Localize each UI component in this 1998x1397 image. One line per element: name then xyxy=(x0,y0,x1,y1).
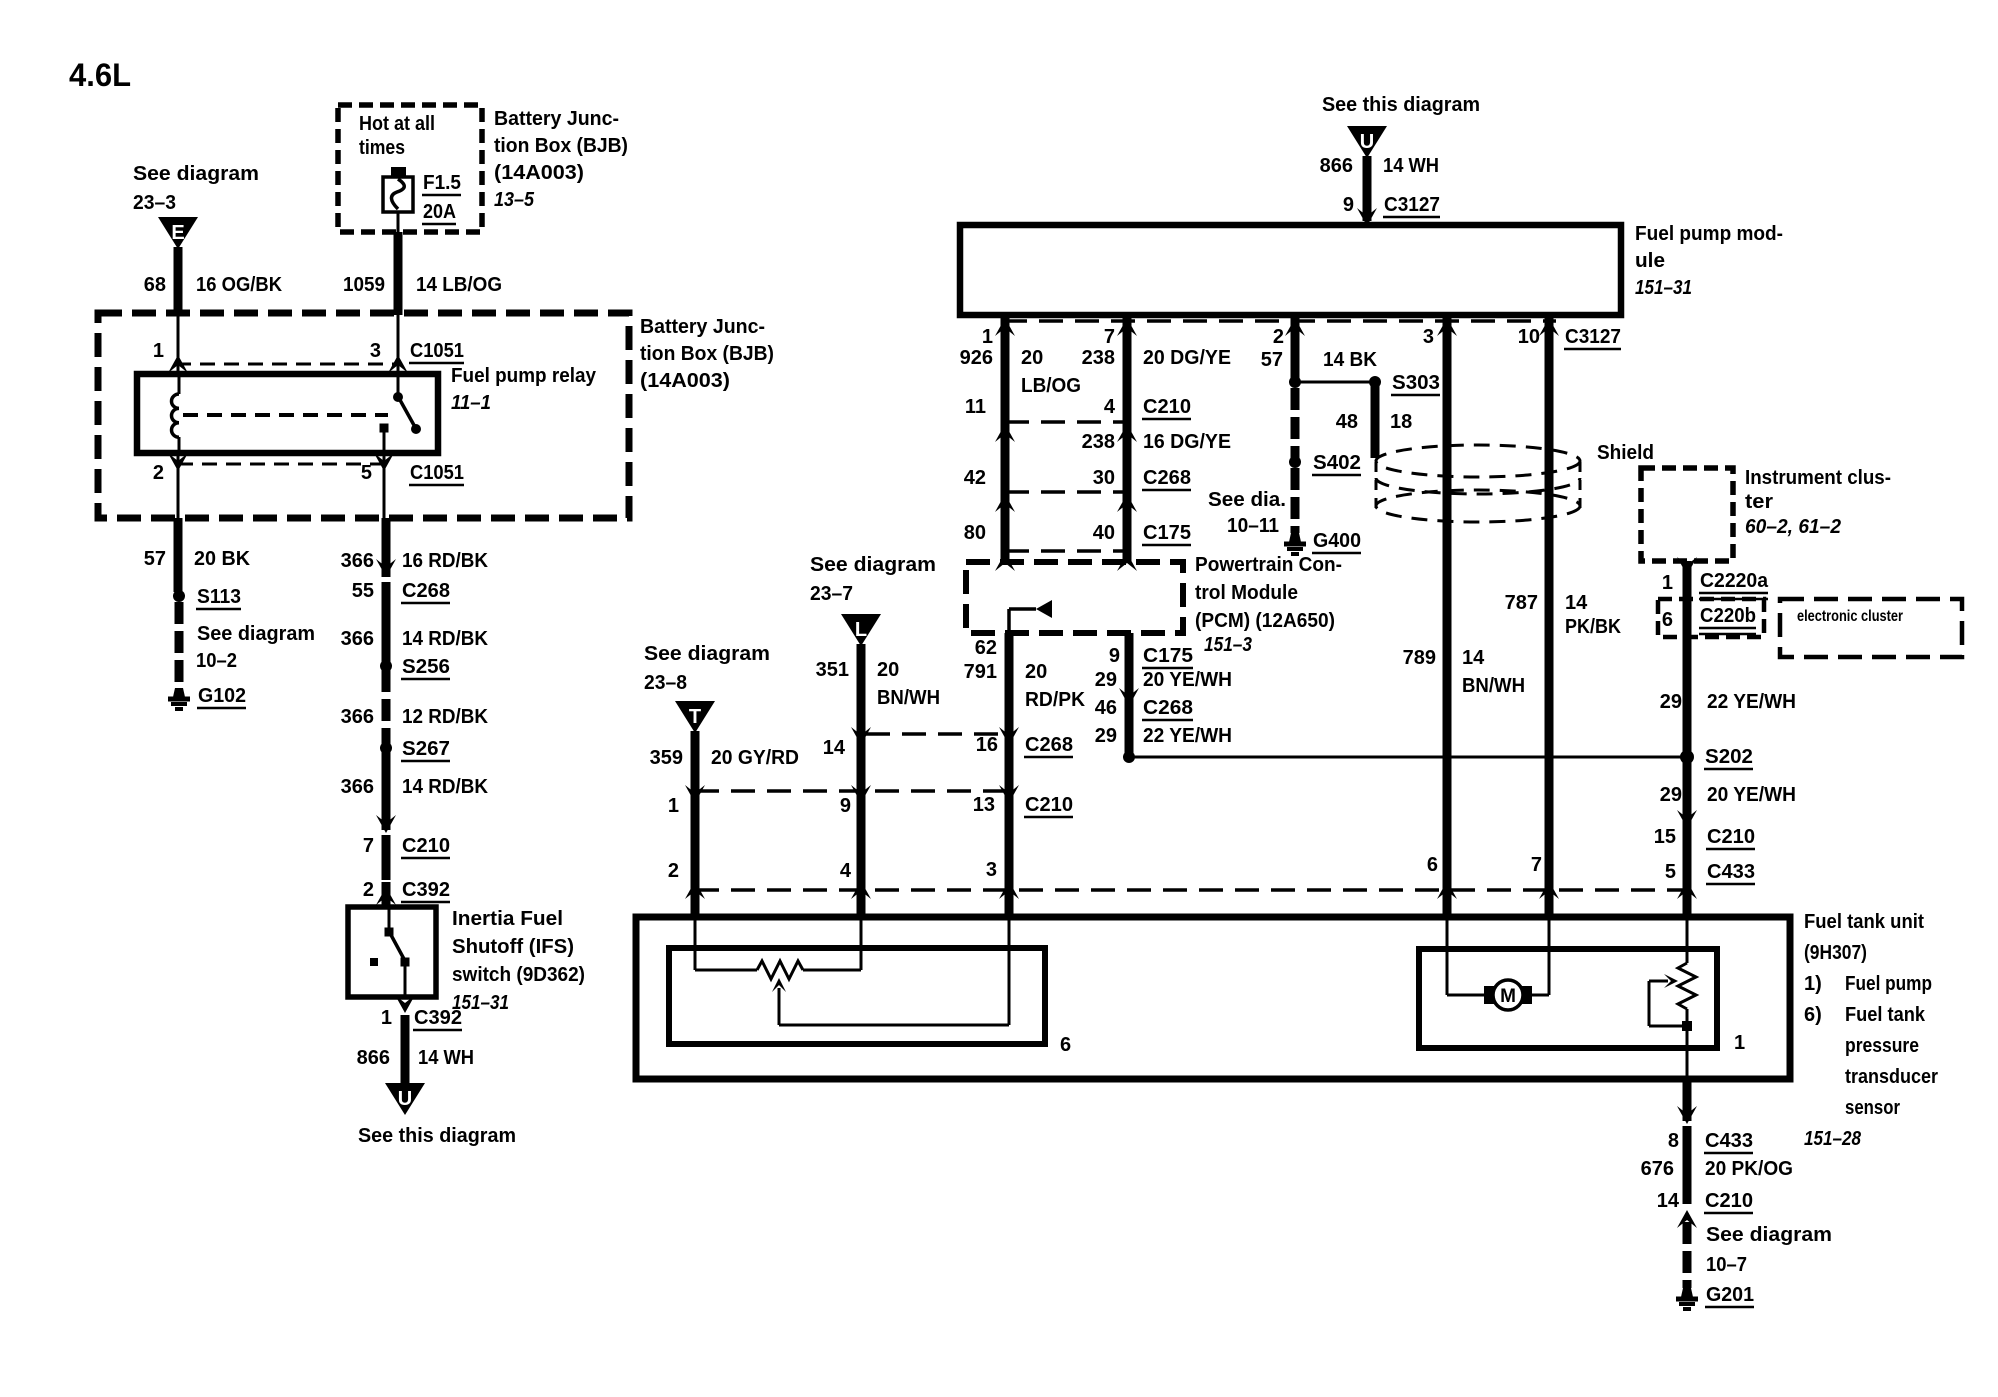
svg-text:20 BK: 20 BK xyxy=(194,548,251,570)
label 351 20 BN/WH xyxy=(816,659,940,709)
arrow out relay pin 5 xyxy=(374,453,394,471)
svg-text:10: 10 xyxy=(1518,326,1540,348)
connector C220b box xyxy=(1658,599,1764,637)
svg-text:866: 866 xyxy=(357,1047,390,1069)
wire BJB top to relay pin 3 xyxy=(397,315,400,374)
svg-text:366: 366 xyxy=(341,628,374,650)
label 7 C210 xyxy=(363,835,450,858)
label 29 20 YE/WH xyxy=(1095,669,1232,691)
svg-text:S113: S113 xyxy=(197,586,241,608)
arrow into IFS switch xyxy=(376,882,396,907)
title 4.6L xyxy=(69,57,131,93)
svg-text:13: 13 xyxy=(973,794,995,816)
sender wires and resistor xyxy=(695,917,861,979)
svg-text:F1.5: F1.5 xyxy=(423,172,461,194)
label 15 C210 right xyxy=(1654,826,1755,849)
label 14 C210 xyxy=(1657,1190,1753,1213)
wire tank to C433 pin 8 xyxy=(1683,1079,1692,1121)
svg-text:See this diagram: See this diagram xyxy=(358,1125,516,1147)
label 29 20 YE/WH right xyxy=(1660,784,1796,806)
label 68 16 OG/BK xyxy=(144,274,283,296)
svg-text:16 OG/BK: 16 OG/BK xyxy=(196,274,283,296)
svg-text:L: L xyxy=(855,619,867,641)
svg-text:ule: ule xyxy=(1635,250,1665,272)
svg-text:See this diagram: See this diagram xyxy=(1322,94,1480,116)
svg-text:See diagram: See diagram xyxy=(133,163,259,185)
fuel level sender box xyxy=(669,948,1045,1044)
wire 366 14 RD/BK lower xyxy=(382,752,391,830)
svg-text:7: 7 xyxy=(1531,854,1542,876)
svg-text:switch (9D362): switch (9D362) xyxy=(452,964,585,986)
labels 42 30 C268 xyxy=(964,467,1191,490)
svg-text:7: 7 xyxy=(363,835,374,857)
labels 16 C268 mid xyxy=(976,734,1073,757)
svg-text:6: 6 xyxy=(1427,854,1438,876)
label See diagram 10-2 xyxy=(196,623,315,672)
arrow into C433 pin 8 xyxy=(1677,1106,1697,1124)
ground G102 xyxy=(168,685,246,709)
wire 866 14 WH top xyxy=(1363,156,1372,221)
label Battery Junction Box (BJB) (14A003) xyxy=(640,316,774,392)
svg-text:4: 4 xyxy=(1104,396,1116,418)
label 29 22 YE/WH xyxy=(1095,725,1232,747)
label 57 20 BK xyxy=(144,548,251,570)
svg-text:BN/WH: BN/WH xyxy=(1462,675,1525,697)
labels 11 4 C210 xyxy=(965,396,1191,419)
svg-text:Shutoff (IFS): Shutoff (IFS) xyxy=(452,936,574,958)
svg-text:C1051: C1051 xyxy=(410,340,464,362)
junction dot PCM sense wire xyxy=(1123,751,1135,763)
wire S402 to G400 dashed xyxy=(1291,468,1300,533)
connector line C210 in harness xyxy=(995,422,1137,442)
svg-text:57: 57 xyxy=(1261,349,1283,371)
wire 366 16 RD/BK xyxy=(382,518,391,577)
svg-text:(9H307): (9H307) xyxy=(1804,942,1867,964)
svg-text:366: 366 xyxy=(341,706,374,728)
label 366 12 RD/BK xyxy=(341,706,489,728)
wire 1059 14 LB/OG xyxy=(394,232,403,315)
svg-text:trol Module: trol Module xyxy=(1195,582,1298,604)
labels 80 40 C175 xyxy=(964,522,1191,545)
svg-text:46: 46 xyxy=(1095,697,1117,719)
svg-text:2: 2 xyxy=(153,462,164,484)
svg-text:926: 926 xyxy=(960,347,993,369)
label 1 pump xyxy=(1734,1032,1745,1054)
svg-text:C3127: C3127 xyxy=(1565,326,1621,348)
relay switch xyxy=(380,374,422,453)
PCM driver symbol xyxy=(1009,600,1052,633)
label 1 pin xyxy=(668,795,679,817)
svg-text:U: U xyxy=(1360,131,1374,153)
svg-text:transducer: transducer xyxy=(1845,1066,1938,1088)
svg-text:C268: C268 xyxy=(1025,734,1073,756)
label Inertia Fuel Shutoff (IFS) switch (9D362) 151-31 xyxy=(452,908,585,1014)
svg-text:20: 20 xyxy=(1021,347,1043,369)
svg-text:366: 366 xyxy=(341,776,374,798)
fuel pump motor box xyxy=(1419,949,1717,1048)
svg-text:151–28: 151–28 xyxy=(1804,1128,1862,1150)
label See diagram 10-7 xyxy=(1706,1224,1832,1276)
svg-text:238: 238 xyxy=(1082,431,1115,453)
module pin arrows xyxy=(995,318,1559,336)
splice S303 xyxy=(1289,372,1440,395)
svg-text:C210: C210 xyxy=(1705,1190,1753,1212)
svg-text:C392: C392 xyxy=(402,879,450,901)
splice S256 xyxy=(380,656,450,679)
svg-text:LB/OG: LB/OG xyxy=(1021,375,1081,397)
label 791 20 RD/PK xyxy=(964,661,1086,711)
connector line C210 mid xyxy=(685,785,1019,803)
svg-text:18: 18 xyxy=(1390,411,1412,433)
svg-text:351: 351 xyxy=(816,659,849,681)
powertrain control module PCM box xyxy=(966,562,1183,633)
svg-text:60–2, 61–2: 60–2, 61–2 xyxy=(1745,516,1841,538)
off-page connector L xyxy=(841,614,881,646)
off-page connector T xyxy=(675,701,715,733)
svg-text:20 GY/RD: 20 GY/RD xyxy=(711,747,799,769)
arrow into C268 pin 55 xyxy=(376,559,396,577)
svg-text:6): 6) xyxy=(1804,1004,1822,1026)
svg-text:29: 29 xyxy=(1660,784,1682,806)
fuel pump relay box xyxy=(137,374,438,453)
svg-text:14 RD/BK: 14 RD/BK xyxy=(402,776,489,798)
label 5 C433 right xyxy=(1665,861,1755,884)
splice S402 xyxy=(1289,452,1361,475)
fuel tank unit box xyxy=(636,917,1790,1079)
svg-text:20 YE/WH: 20 YE/WH xyxy=(1707,784,1796,806)
svg-text:29: 29 xyxy=(1095,669,1117,691)
off-page connector U top xyxy=(1347,126,1387,158)
label See diagram 23-8 xyxy=(644,643,770,694)
svg-text:23–3: 23–3 xyxy=(133,192,176,214)
wire below S256 xyxy=(382,670,391,744)
svg-text:pressure: pressure xyxy=(1845,1035,1919,1057)
label 2 C392 xyxy=(363,879,450,902)
svg-text:14 WH: 14 WH xyxy=(418,1047,474,1069)
svg-text:151–3: 151–3 xyxy=(1204,634,1252,656)
svg-text:1059: 1059 xyxy=(343,274,385,296)
label 238 20 DG/YE xyxy=(1082,347,1231,369)
label Shield xyxy=(1597,442,1654,464)
fuse F1.5 20A xyxy=(383,167,413,232)
svg-text:Shield: Shield xyxy=(1597,442,1654,464)
svg-text:times: times xyxy=(359,137,405,159)
splice S113 xyxy=(173,586,241,609)
shield xyxy=(1376,445,1580,522)
label 1 C2220a xyxy=(1662,570,1769,599)
svg-text:2: 2 xyxy=(1273,326,1284,348)
svg-text:S402: S402 xyxy=(1313,452,1361,474)
svg-text:80: 80 xyxy=(964,522,986,544)
svg-text:16 RD/BK: 16 RD/BK xyxy=(402,550,489,572)
svg-text:15: 15 xyxy=(1654,826,1676,848)
svg-text:10–7: 10–7 xyxy=(1706,1254,1747,1276)
relay connector line top xyxy=(176,363,400,366)
svg-text:RD/PK: RD/PK xyxy=(1025,689,1086,711)
svg-text:13–5: 13–5 xyxy=(494,189,535,211)
wire 676 20 PK/OG xyxy=(1683,1126,1692,1204)
svg-text:29: 29 xyxy=(1660,691,1682,713)
svg-text:9: 9 xyxy=(1343,194,1354,216)
label Fuel pump relay 11-1 xyxy=(451,365,597,414)
svg-text:57: 57 xyxy=(144,548,166,570)
electronic cluster box xyxy=(1780,599,1962,657)
svg-text:tion Box (BJB): tion Box (BJB) xyxy=(640,343,774,365)
ground G201 xyxy=(1676,1284,1754,1309)
label 29 22 YE/WH right xyxy=(1660,691,1796,713)
instrument cluster box xyxy=(1641,468,1733,561)
svg-text:Battery Junc-: Battery Junc- xyxy=(494,108,619,130)
svg-text:Hot at all: Hot at all xyxy=(359,113,435,135)
svg-text:Fuel pump relay: Fuel pump relay xyxy=(451,365,597,387)
svg-text:See diagram: See diagram xyxy=(644,643,770,665)
svg-text:5: 5 xyxy=(1665,861,1676,883)
label 366 14 RD/BK 2 xyxy=(341,776,489,798)
svg-text:C433: C433 xyxy=(1707,861,1755,883)
svg-text:Fuel tank: Fuel tank xyxy=(1845,1004,1926,1026)
svg-text:359: 359 xyxy=(650,747,683,769)
label 9 pin xyxy=(840,795,851,817)
label 366 16 RD/BK xyxy=(341,550,489,572)
svg-text:10–2: 10–2 xyxy=(196,650,237,672)
pin 3 label and connector C1051 xyxy=(370,340,464,363)
wire relay pin 2 to BJB bottom xyxy=(177,453,180,518)
svg-text:4: 4 xyxy=(840,860,852,882)
svg-text:29: 29 xyxy=(1095,725,1117,747)
pin 5 label and connector C1051 xyxy=(361,462,464,485)
label Powertrain Control Module (PCM) (12A650) 151-3 xyxy=(1195,554,1342,656)
svg-text:787: 787 xyxy=(1505,592,1538,614)
label 787 14 PK/BK xyxy=(1505,592,1622,638)
svg-text:Fuel tank unit: Fuel tank unit xyxy=(1804,911,1924,933)
svg-text:1: 1 xyxy=(982,326,993,348)
svg-text:14 LB/OG: 14 LB/OG xyxy=(416,274,502,296)
svg-text:30: 30 xyxy=(1093,467,1115,489)
svg-text:10–11: 10–11 xyxy=(1227,515,1279,537)
wire relay pin 5 to BJB bottom xyxy=(383,453,386,518)
svg-text:14 RD/BK: 14 RD/BK xyxy=(402,628,489,650)
svg-text:PK/BK: PK/BK xyxy=(1565,616,1621,638)
sender wiper xyxy=(772,917,1009,1025)
wire 866 14 WH left xyxy=(401,1015,410,1083)
off-page connector U bottom xyxy=(385,1083,425,1115)
label 366 14 RD/BK xyxy=(341,628,489,650)
label 46 C268 xyxy=(1095,697,1193,720)
svg-text:C210: C210 xyxy=(1143,396,1191,418)
svg-text:electronic cluster: electronic cluster xyxy=(1797,608,1903,625)
svg-text:23–8: 23–8 xyxy=(644,672,687,694)
label 57 14 BK xyxy=(1261,349,1378,371)
wire 787 14 PK/BK xyxy=(1545,315,1554,917)
label 14 pin xyxy=(823,737,846,759)
svg-text:20 YE/WH: 20 YE/WH xyxy=(1143,669,1232,691)
arrow into C210 pin 7 xyxy=(376,815,396,833)
svg-text:14 WH: 14 WH xyxy=(1383,155,1439,177)
svg-text:20 PK/OG: 20 PK/OG xyxy=(1705,1158,1793,1180)
wire S113 to G102 dashed xyxy=(175,602,184,688)
svg-text:Fuel pump mod-: Fuel pump mod- xyxy=(1635,223,1783,245)
svg-text:C210: C210 xyxy=(402,835,450,857)
Hot at all times box xyxy=(338,105,482,232)
pin 2 label xyxy=(153,462,164,484)
svg-text:62: 62 xyxy=(975,637,997,659)
arrow out of instrument cluster xyxy=(1677,557,1697,575)
wire 791 20 RD/PK xyxy=(1005,633,1014,917)
wire C210 to C392 xyxy=(382,835,391,880)
svg-text:3: 3 xyxy=(986,859,997,881)
wire 238 DG/YE xyxy=(1123,315,1132,562)
svg-text:E: E xyxy=(171,222,184,244)
svg-text:Fuel pump: Fuel pump xyxy=(1845,973,1932,995)
label 48 18 xyxy=(1336,411,1413,433)
IFS switch contacts xyxy=(370,907,410,997)
svg-text:14: 14 xyxy=(823,737,846,759)
svg-text:9: 9 xyxy=(1109,645,1120,667)
svg-text:C3127: C3127 xyxy=(1384,194,1440,216)
svg-text:151–31: 151–31 xyxy=(1635,277,1692,299)
label 926 20 LB/OG xyxy=(960,347,1081,397)
svg-text:See diagram: See diagram xyxy=(810,554,936,576)
svg-text:4.6L: 4.6L xyxy=(69,57,131,93)
svg-text:6: 6 xyxy=(1060,1034,1071,1056)
svg-text:C210: C210 xyxy=(1025,794,1073,816)
svg-text:7: 7 xyxy=(1104,326,1115,348)
splice S267 xyxy=(380,738,450,761)
ground G400 xyxy=(1284,530,1361,554)
svg-text:1: 1 xyxy=(1662,572,1673,594)
label 1 C392 xyxy=(381,1007,462,1030)
svg-text:8: 8 xyxy=(1668,1130,1679,1152)
label 3 pin xyxy=(986,859,997,881)
label Fuel pump module 151-31 xyxy=(1635,223,1783,299)
svg-text:See diagram: See diagram xyxy=(197,623,315,645)
svg-text:T: T xyxy=(689,706,701,728)
label 359 20 GY/RD xyxy=(650,747,799,769)
svg-text:3: 3 xyxy=(1423,326,1434,348)
wire cluster to tank 22 YE/WH xyxy=(1683,561,1692,917)
svg-text:42: 42 xyxy=(964,467,986,489)
label 866 14 WH top xyxy=(1320,155,1439,177)
label F1.5 20A xyxy=(422,172,461,224)
label See diagram 23-7 xyxy=(810,554,936,605)
svg-text:791: 791 xyxy=(964,661,997,683)
connector line C268 mid xyxy=(851,727,1019,745)
svg-text:C210: C210 xyxy=(1707,826,1755,848)
svg-text:11–1: 11–1 xyxy=(451,392,491,414)
wire 48 18 shield drain xyxy=(1371,382,1380,458)
svg-text:S303: S303 xyxy=(1392,372,1440,394)
svg-text:sensor: sensor xyxy=(1845,1097,1900,1119)
svg-text:C1051: C1051 xyxy=(410,462,464,484)
wire 68 16 OG/BK xyxy=(174,247,183,315)
label 866 14 WH xyxy=(357,1047,474,1069)
inertia fuel shutoff switch box xyxy=(348,907,436,997)
svg-text:14: 14 xyxy=(1462,647,1485,669)
svg-text:C175: C175 xyxy=(1143,522,1191,544)
svg-text:(14A003): (14A003) xyxy=(640,370,730,392)
svg-text:1: 1 xyxy=(381,1007,392,1029)
svg-text:Instrument clus-: Instrument clus- xyxy=(1745,467,1891,489)
label 238 16 DG/YE xyxy=(1082,431,1231,453)
svg-text:See diagram: See diagram xyxy=(1706,1224,1832,1246)
svg-text:12 RD/BK: 12 RD/BK xyxy=(402,706,489,728)
svg-text:866: 866 xyxy=(1320,155,1353,177)
svg-text:C268: C268 xyxy=(402,580,450,602)
labels 6 7 pins xyxy=(1427,854,1542,876)
labels 13 C210 mid xyxy=(973,794,1073,817)
label 62 pin xyxy=(975,637,997,659)
label 9 C175 pin xyxy=(1109,645,1193,668)
svg-text:11: 11 xyxy=(965,396,986,418)
label Battery Junction Box (BJB) (14A003) 13-5 xyxy=(494,108,628,211)
wire C210 to G201 dashed xyxy=(1683,1222,1692,1288)
svg-text:238: 238 xyxy=(1082,347,1115,369)
fuel tank pressure transducer xyxy=(1649,917,1696,1079)
wire 926 20 LB/OG xyxy=(1001,315,1010,562)
svg-text:14: 14 xyxy=(1657,1190,1680,1212)
svg-text:(14A003): (14A003) xyxy=(494,162,584,184)
module connector dashed line xyxy=(1003,319,1556,323)
connector line C175 in harness xyxy=(995,551,1137,571)
wire PCM to S202 horizontal xyxy=(1129,756,1687,759)
svg-text:C433: C433 xyxy=(1705,1130,1753,1152)
off-page connector E xyxy=(158,217,198,249)
arrow out of IFS C392 pin 1 xyxy=(395,995,415,1013)
svg-text:9: 9 xyxy=(840,795,851,817)
svg-text:C220b: C220b xyxy=(1700,605,1756,627)
svg-text:U: U xyxy=(398,1088,412,1110)
label See this diagram top xyxy=(1322,94,1480,116)
svg-text:3: 3 xyxy=(370,340,381,362)
svg-text:G201: G201 xyxy=(1706,1284,1754,1306)
label 6 C220b xyxy=(1662,605,1756,634)
svg-text:14: 14 xyxy=(1565,592,1588,614)
wire 57 14 BK xyxy=(1291,315,1300,382)
Battery Junction Box BJB xyxy=(98,313,629,518)
svg-text:789: 789 xyxy=(1403,647,1436,669)
svg-text:20: 20 xyxy=(1025,661,1047,683)
svg-text:ter: ter xyxy=(1745,491,1773,513)
svg-text:22 YE/WH: 22 YE/WH xyxy=(1707,691,1796,713)
splice S202 xyxy=(1680,746,1753,769)
arrow out relay pin 2 xyxy=(168,453,188,471)
svg-text:C268: C268 xyxy=(1143,467,1191,489)
svg-text:C2220a: C2220a xyxy=(1700,570,1769,592)
svg-text:C175: C175 xyxy=(1143,645,1193,667)
label 4 pin xyxy=(840,860,852,882)
svg-text:16 DG/YE: 16 DG/YE xyxy=(1143,431,1231,453)
svg-text:2: 2 xyxy=(363,879,374,901)
label Hot at all times xyxy=(359,113,435,159)
svg-text:1: 1 xyxy=(1734,1032,1745,1054)
svg-text:Battery Junc-: Battery Junc- xyxy=(640,316,765,338)
svg-text:20 DG/YE: 20 DG/YE xyxy=(1143,347,1231,369)
svg-text:(PCM) (12A650): (PCM) (12A650) xyxy=(1195,610,1335,632)
module pin labels 1 7 2 3 10 C3127 xyxy=(982,326,1621,349)
label electronic cluster xyxy=(1797,608,1903,625)
svg-text:See dia.: See dia. xyxy=(1208,489,1286,511)
label Instrument cluster 60-2 61-2 xyxy=(1745,467,1891,538)
svg-text:14 BK: 14 BK xyxy=(1323,349,1378,371)
label 9 C3127 xyxy=(1343,194,1440,217)
arrow into module C3127 pin 9 xyxy=(1357,208,1377,226)
fuel pump module box xyxy=(960,225,1621,315)
svg-text:S256: S256 xyxy=(402,656,450,678)
svg-text:22 YE/WH: 22 YE/WH xyxy=(1143,725,1232,747)
wire BJB top to relay pin 1 xyxy=(177,315,180,374)
label 2 pin xyxy=(668,860,679,882)
svg-text:1: 1 xyxy=(153,340,164,362)
